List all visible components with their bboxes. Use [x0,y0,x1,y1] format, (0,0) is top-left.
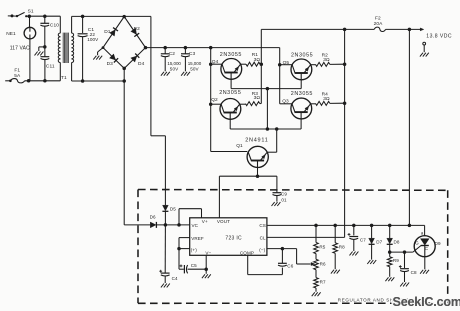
svg-text:3Ω: 3Ω [254,57,261,63]
svg-text:S1: S1 [28,8,34,14]
svg-text:D9: D9 [435,241,441,246]
svg-text:50V: 50V [170,66,179,71]
svg-text:Q3: Q3 [282,98,289,104]
svg-text:COMP: COMP [240,251,254,256]
svg-text:V+: V+ [202,219,208,224]
svg-text:CL: CL [260,236,266,241]
svg-text:3Ω: 3Ω [323,96,330,102]
svg-text:NE1: NE1 [6,31,16,37]
svg-text:R7: R7 [320,280,326,285]
svg-text:R9: R9 [393,258,399,263]
svg-text:D1: D1 [104,29,111,35]
svg-text:Q5: Q5 [283,60,290,66]
svg-text:723 IC: 723 IC [225,236,242,242]
svg-text:C11: C11 [46,63,55,69]
svg-text:Q4: Q4 [212,59,219,65]
svg-text:D3: D3 [107,61,114,67]
svg-text:3Ω: 3Ω [254,95,261,101]
svg-text:F2: F2 [375,15,381,21]
svg-text:C7: C7 [360,237,366,242]
svg-text:VOUT: VOUT [217,219,230,224]
svg-text:(+): (+) [191,248,197,253]
svg-text:100V: 100V [87,37,99,42]
svg-text:R8: R8 [339,245,345,250]
svg-text:C2: C2 [169,51,176,57]
svg-text:C: C [425,246,428,251]
svg-text:2N3055: 2N3055 [291,52,313,58]
svg-text:F1: F1 [14,67,20,73]
svg-text:D8: D8 [394,240,400,245]
svg-text:2N4911: 2N4911 [245,137,268,143]
svg-text:2N3055: 2N3055 [220,52,242,58]
svg-text:C3: C3 [189,51,196,57]
svg-text:D2: D2 [134,26,141,32]
svg-text:D5: D5 [170,206,176,211]
svg-text:C10: C10 [50,22,59,28]
svg-text:2N3055: 2N3055 [291,91,313,97]
svg-text:50V: 50V [190,66,199,71]
svg-text:C8: C8 [411,270,417,275]
svg-text:C5: C5 [191,263,197,268]
svg-text:R6: R6 [320,261,326,266]
svg-text:Q1: Q1 [236,143,243,149]
svg-text:SeekIC.com: SeekIC.com [393,295,460,309]
svg-text:C4: C4 [172,276,178,281]
svg-text:VC: VC [192,223,199,228]
svg-text:V−: V− [205,251,211,256]
svg-text:C6: C6 [287,264,293,269]
svg-text:VREF: VREF [191,236,204,241]
svg-text:01: 01 [281,198,287,203]
svg-text:(−): (−) [259,248,265,253]
svg-text:15,000: 15,000 [167,61,181,66]
svg-text:15,000: 15,000 [188,61,202,66]
svg-text:13.8 VDC: 13.8 VDC [426,34,452,40]
svg-text:Q2: Q2 [211,97,218,103]
svg-text:3Ω: 3Ω [323,57,330,63]
svg-text:D7: D7 [376,240,382,245]
svg-text:D6: D6 [150,215,156,220]
svg-text:C9: C9 [281,192,287,197]
svg-text:CS: CS [259,223,266,228]
svg-text:T1: T1 [61,75,67,81]
svg-text:2N3055: 2N3055 [219,90,241,96]
svg-text:117 VAC: 117 VAC [10,45,30,51]
svg-text:G: G [415,241,419,246]
svg-text:D4: D4 [138,61,145,67]
svg-text:5A: 5A [14,73,21,79]
svg-text:20A: 20A [374,21,384,27]
svg-text:R5: R5 [319,244,325,249]
